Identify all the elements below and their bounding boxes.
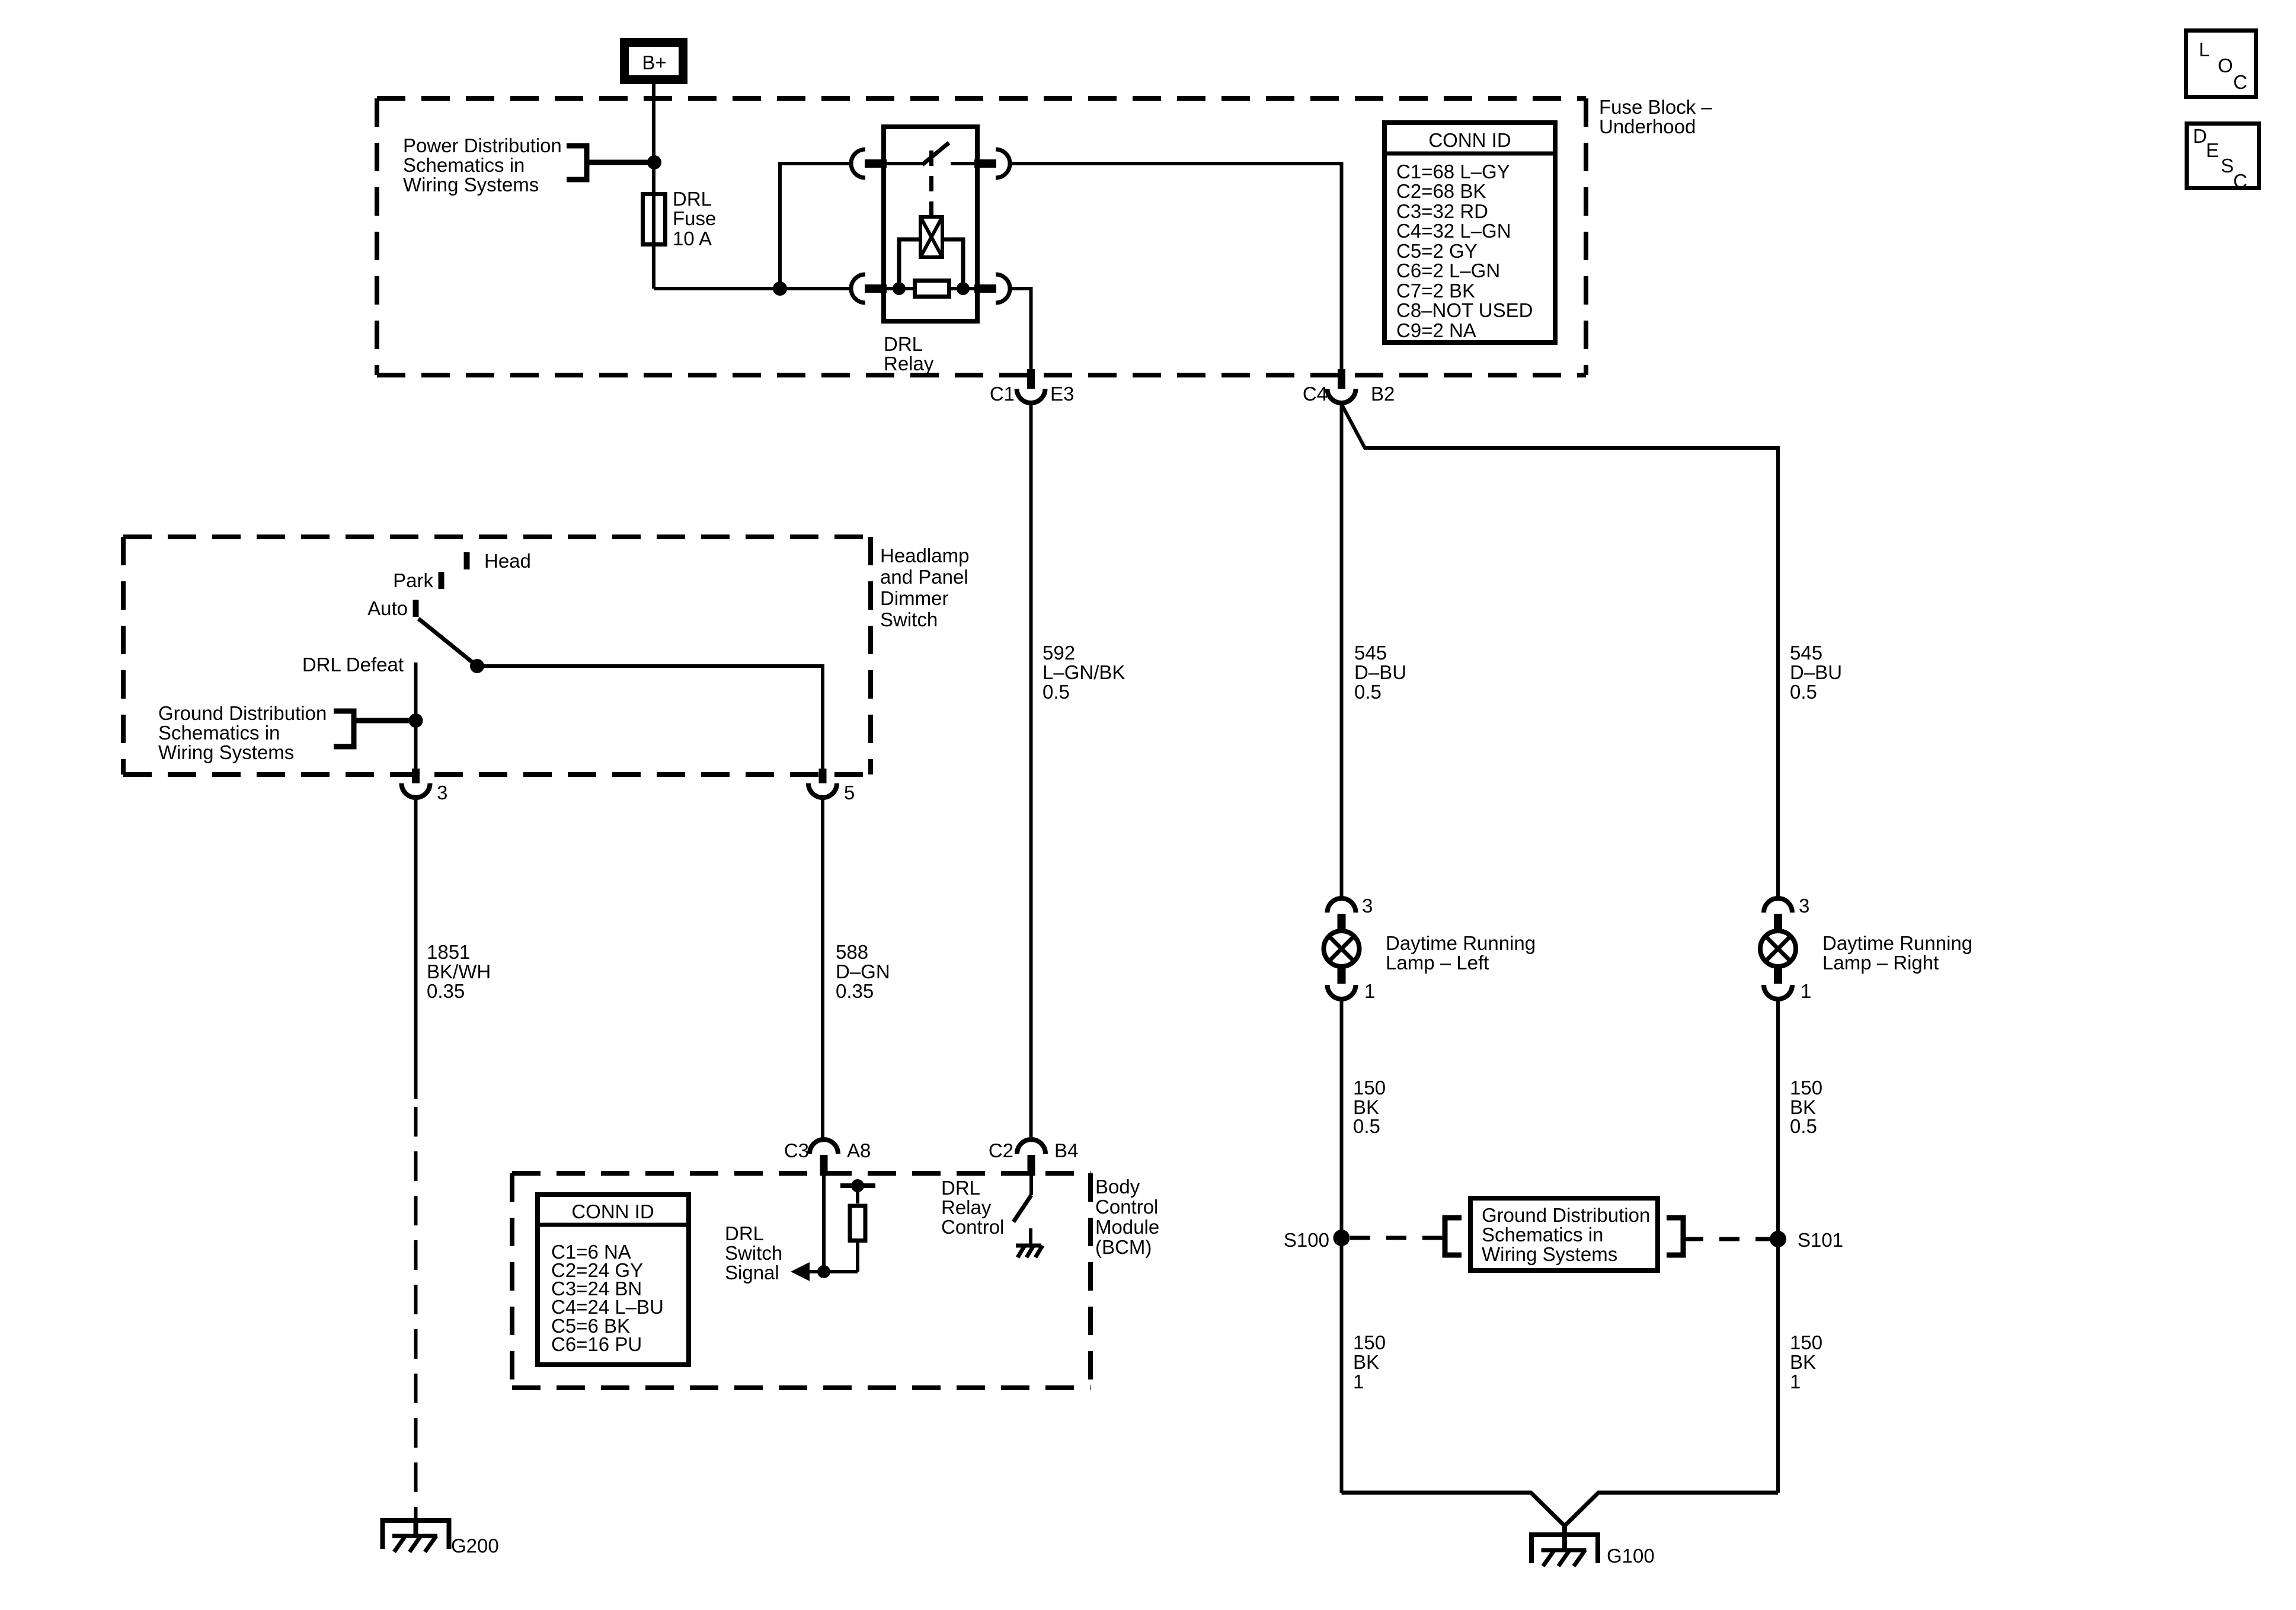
svg-text:CONN ID: CONN ID [571, 1201, 654, 1222]
svg-text:Schematics in: Schematics in [158, 722, 280, 744]
svg-text:C9=2 NA: C9=2 NA [1396, 319, 1476, 341]
CONN ID table (Fuse Block) [1384, 123, 1555, 343]
label: 150 BK 0.5 (left) [1353, 1077, 1386, 1137]
svg-text:Daytime Running: Daytime Running [1822, 932, 1972, 954]
svg-text:Fuse Block –: Fuse Block – [1599, 96, 1712, 118]
node: junction at B+ feed [647, 155, 661, 169]
svg-text:O: O [2218, 55, 2233, 76]
svg-text:C7=2 BK: C7=2 BK [1396, 280, 1475, 302]
relay lower internal line [884, 287, 977, 290]
wire: bracket to DRL Defeat junction [354, 718, 416, 724]
node: junction below relay [773, 281, 787, 296]
svg-text:Switch: Switch [880, 609, 938, 630]
svg-text:C5=2 GY: C5=2 GY [1396, 240, 1478, 262]
label: Daytime Running Lamp - Right [1822, 932, 1972, 974]
connector pin 1 (right lamp) [1774, 966, 1782, 984]
svg-text:150: 150 [1790, 1077, 1822, 1099]
ground G200 [383, 1518, 449, 1552]
connector pin 3 (right lamp) [1764, 898, 1792, 913]
DRL relay control switch (BCM internal) [1029, 1176, 1033, 1195]
relay U1: DRL Relay box [884, 127, 977, 321]
svg-text:Body: Body [1095, 1176, 1140, 1198]
svg-text:D: D [2193, 125, 2207, 147]
relay pin connector: lower-right [996, 274, 1010, 303]
svg-text:Underhood: Underhood [1599, 116, 1696, 137]
lamp: Daytime Running Lamp - Right [1760, 931, 1796, 966]
wire: relay lower-right pin to C1 connector [1010, 289, 1031, 369]
svg-text:Module: Module [1095, 1216, 1159, 1238]
svg-text:CONN ID: CONN ID [1428, 129, 1511, 151]
svg-text:Power Distribution: Power Distribution [403, 135, 562, 156]
note: Power Distribution Schematics in Wiring Systems [403, 135, 562, 196]
connector pin 1 (left lamp) [1338, 966, 1346, 984]
DRL switch signal line with arrow [801, 1270, 858, 1273]
svg-text:Switch: Switch [725, 1242, 782, 1264]
svg-text:1: 1 [1790, 1371, 1801, 1393]
svg-text:1: 1 [1801, 980, 1811, 1002]
switch position tick: Park [439, 572, 445, 589]
node: switch signal junction [817, 1265, 830, 1278]
wire: fuse bottom to relay lower-left pin [654, 287, 851, 290]
relay internal resistor [915, 281, 949, 297]
dashed link: note to S101 [1683, 1237, 1770, 1241]
connector C2 / B4 (BCM) [1017, 1140, 1045, 1154]
label: 588 D-GN 0.35 [836, 941, 890, 1002]
svg-text:592: 592 [1043, 642, 1075, 664]
relay coil parallel branch [899, 239, 963, 289]
label: 545 D-BU 0.5 (left) [1354, 642, 1406, 703]
ground (BCM internal chassis ground) [1029, 1228, 1032, 1246]
wire 150 BK 0.5 (right): lamp pin1 to S101 [1776, 999, 1780, 1239]
svg-text:Lamp – Left: Lamp – Left [1386, 952, 1489, 974]
node: ground-note junction [409, 713, 423, 728]
svg-text:588: 588 [836, 941, 868, 963]
label: DRL Switch Signal [725, 1222, 782, 1283]
ground bus wires merging to G100 [1342, 1493, 1565, 1526]
svg-text:0.35: 0.35 [836, 980, 874, 1002]
label: 150 BK 1 (left) [1353, 1331, 1386, 1393]
svg-text:C3: C3 [784, 1140, 809, 1161]
svg-text:545: 545 [1354, 642, 1387, 664]
svg-text:Control: Control [941, 1216, 1004, 1238]
svg-text:0.5: 0.5 [1043, 681, 1070, 703]
internal supply bar [840, 1183, 875, 1188]
svg-text:E3: E3 [1050, 383, 1074, 405]
node: resistor top junction [851, 1179, 864, 1192]
bracket (right) of ground-distribution note [1667, 1218, 1683, 1255]
wire 545 left: C4/B2 down to left lamp [1340, 403, 1344, 898]
wire: bracket to B+ node [587, 160, 654, 165]
svg-text:D–BU: D–BU [1354, 661, 1406, 683]
label: DRL Relay Control [941, 1177, 1004, 1238]
bracket from Power Distribution note [567, 146, 587, 180]
svg-text:B+: B+ [642, 52, 666, 73]
svg-text:DRL: DRL [673, 188, 712, 210]
svg-text:C: C [2233, 170, 2247, 192]
svg-text:C4: C4 [1303, 383, 1328, 405]
svg-text:10 A: 10 A [673, 228, 712, 249]
svg-text:Dimmer: Dimmer [880, 587, 948, 609]
lamp: Daytime Running Lamp - Left [1324, 931, 1360, 966]
svg-text:G200: G200 [451, 1535, 499, 1557]
Headlamp and Panel Dimmer Switch dashed box [123, 537, 871, 774]
svg-text:DRL: DRL [941, 1177, 980, 1199]
relay coil (box with X) [920, 217, 942, 257]
connector pin 5 (switch) [819, 769, 827, 783]
wire 150 BK 0.5 (left): lamp pin1 to S100 [1340, 999, 1344, 1238]
ground G100 [1531, 1524, 1598, 1566]
svg-text:Lamp – Right: Lamp – Right [1822, 952, 1939, 974]
svg-text:Daytime Running: Daytime Running [1386, 932, 1536, 954]
label: 545 D-BU 0.5 (right) [1790, 642, 1842, 703]
wire: node through fuse down [652, 162, 655, 289]
svg-text:E: E [2206, 139, 2219, 161]
relay pin connector: upper-right [996, 149, 1010, 178]
connector C4 / B2 [1338, 369, 1345, 389]
pull-up resistor (BCM internal) [856, 1243, 859, 1272]
label: 592 L-GN/BK 0.5 [1043, 642, 1125, 703]
svg-text:DRL: DRL [884, 333, 923, 355]
wire: junction up to relay upper-left pin [780, 164, 851, 289]
svg-text:S: S [2221, 155, 2234, 177]
wire: B+ down to fuse node [652, 84, 655, 162]
svg-text:A8: A8 [847, 1140, 871, 1161]
svg-text:C8–NOT USED: C8–NOT USED [1396, 299, 1533, 321]
svg-text:Schematics in: Schematics in [403, 154, 525, 176]
svg-text:BK: BK [1353, 1351, 1379, 1373]
CONN ID table (BCM) [538, 1195, 689, 1365]
wire: DRL Defeat line down to pin 3 [414, 662, 418, 769]
svg-text:1: 1 [1353, 1371, 1364, 1393]
svg-text:Schematics in: Schematics in [1482, 1224, 1603, 1246]
connector pin 3 (switch) [412, 769, 420, 783]
svg-text:L: L [2199, 39, 2209, 60]
svg-text:L–GN/BK: L–GN/BK [1043, 661, 1125, 683]
wire 588: pin 5 down to BCM C3/A8 [821, 798, 824, 1140]
svg-text:(BCM): (BCM) [1095, 1236, 1152, 1258]
svg-text:1: 1 [1364, 980, 1375, 1002]
svg-text:0.5: 0.5 [1353, 1115, 1380, 1137]
svg-text:5: 5 [844, 782, 855, 804]
node: blade junction [470, 659, 484, 673]
svg-text:Wiring Systems: Wiring Systems [403, 174, 539, 196]
label: Headlamp and Panel Dimmer Switch [880, 545, 969, 630]
svg-text:0.5: 0.5 [1354, 681, 1382, 703]
svg-text:150: 150 [1353, 1331, 1386, 1353]
svg-text:0.35: 0.35 [427, 980, 465, 1002]
svg-text:C2: C2 [989, 1140, 1013, 1161]
svg-text:150: 150 [1353, 1077, 1386, 1099]
note box: Ground Distribution Schematics in Wiring Systems [1470, 1198, 1658, 1270]
svg-text:S101: S101 [1798, 1229, 1843, 1251]
DESC reference box [2187, 124, 2259, 193]
bracket from Ground Distribution note [334, 711, 354, 747]
Body Control Module dashed box [512, 1173, 1091, 1388]
svg-text:DRL: DRL [725, 1222, 764, 1244]
svg-text:Ground Distribution: Ground Distribution [1482, 1204, 1650, 1226]
node: relay lower-left internal junction [893, 282, 906, 295]
wire 150 BK 1 (right): S101 down to ground bus [1776, 1239, 1780, 1493]
svg-text:C6=16 PU: C6=16 PU [551, 1333, 642, 1355]
svg-text:Signal: Signal [725, 1262, 779, 1283]
label: 150 BK 1 (right) [1790, 1331, 1822, 1393]
svg-text:S100: S100 [1284, 1229, 1329, 1251]
svg-text:0.5: 0.5 [1790, 1115, 1817, 1137]
svg-text:Relay: Relay [884, 353, 934, 375]
wire: relay upper-right pin to C4 connector [1010, 164, 1342, 369]
svg-text:D–GN: D–GN [836, 961, 890, 982]
wire 1851: pin 3 down (solid then dashed) to G200 [414, 798, 418, 1099]
svg-text:0.5: 0.5 [1790, 681, 1817, 703]
label: 150 BK 0.5 (right) [1790, 1077, 1822, 1137]
switch position tick: Auto [413, 600, 419, 617]
label: 1851 BK/WH 0.35 [427, 941, 491, 1002]
svg-text:C6=2 L–GN: C6=2 L–GN [1396, 260, 1500, 281]
svg-text:3: 3 [1799, 895, 1809, 917]
relay switch contact [884, 162, 922, 165]
note: Ground Distribution Schematics in Wiring Systems (switch) [158, 702, 327, 763]
wire: blade junction to pin 5 [477, 666, 823, 769]
connector C3 / A8 (BCM) [810, 1140, 838, 1154]
connector pin 3 (left lamp) [1328, 898, 1356, 913]
svg-text:Wiring Systems: Wiring Systems [158, 741, 294, 763]
svg-text:C1=68 L–GY: C1=68 L–GY [1396, 161, 1510, 183]
svg-text:Park: Park [393, 569, 433, 591]
svg-text:C2=68 BK: C2=68 BK [1396, 180, 1486, 202]
wire 592: C1/E3 down to BCM C2/B4 [1029, 403, 1033, 1137]
B+ battery feed symbol [625, 43, 683, 80]
svg-text:BK/WH: BK/WH [427, 961, 491, 982]
Fuse Block - Underhood dashed box [377, 98, 1586, 375]
svg-text:and Panel: and Panel [880, 566, 968, 588]
switch blade (wiper) [418, 619, 477, 666]
relay actuator dashed link [929, 151, 933, 217]
wire 150 BK 1 (left): S100 down to ground bus [1340, 1238, 1344, 1493]
svg-text:C4=32 L–GN: C4=32 L–GN [1396, 220, 1511, 242]
svg-text:Headlamp: Headlamp [880, 545, 969, 566]
relay pin connector: upper-left [851, 149, 865, 178]
splice S101 [1770, 1231, 1786, 1247]
connector C1 / E3 [1027, 369, 1035, 389]
svg-text:DRL Defeat: DRL Defeat [302, 654, 404, 676]
svg-text:150: 150 [1790, 1331, 1822, 1353]
fuse: DRL Fuse 10 A [643, 194, 666, 245]
dashed link: S100 to ground-distribution note [1350, 1236, 1445, 1240]
svg-text:BK: BK [1790, 1351, 1816, 1373]
svg-text:C1: C1 [990, 383, 1015, 405]
node: relay lower-right internal junction [957, 282, 970, 295]
svg-text:Wiring Systems: Wiring Systems [1482, 1243, 1617, 1265]
wire 545 right branch: C4/B2 to right lamp [1342, 404, 1779, 898]
LOC reference box [2186, 31, 2256, 97]
svg-text:Auto: Auto [367, 597, 408, 619]
svg-text:3: 3 [437, 782, 447, 804]
svg-text:3: 3 [1362, 895, 1373, 917]
label: Fuse Block - Underhood [1599, 96, 1712, 137]
svg-text:C: C [2233, 71, 2247, 93]
svg-text:B4: B4 [1054, 1140, 1078, 1161]
label: Body Control Module (BCM) [1095, 1176, 1159, 1258]
svg-text:Head: Head [484, 550, 531, 572]
splice S100 [1334, 1230, 1350, 1246]
svg-text:545: 545 [1790, 642, 1822, 664]
svg-text:B2: B2 [1371, 383, 1395, 405]
label: DRL Relay [884, 333, 934, 375]
svg-text:Relay: Relay [941, 1196, 992, 1218]
svg-text:1851: 1851 [427, 941, 470, 963]
relay pin connector: lower-left [851, 274, 865, 303]
svg-text:C3=32 RD: C3=32 RD [1396, 200, 1488, 222]
svg-text:Control: Control [1095, 1196, 1158, 1218]
switch position tick: Head [464, 552, 470, 569]
svg-text:Ground Distribution: Ground Distribution [158, 702, 327, 724]
wire: C3 internal to switch-signal line [822, 1176, 826, 1272]
label: DRL Fuse 10 A [673, 188, 716, 249]
svg-text:D–BU: D–BU [1790, 661, 1842, 683]
label: Daytime Running Lamp - Left [1386, 932, 1536, 974]
svg-text:G100: G100 [1607, 1545, 1655, 1567]
svg-text:Fuse: Fuse [673, 207, 716, 229]
bracket (left) of ground-distribution note [1445, 1218, 1462, 1255]
